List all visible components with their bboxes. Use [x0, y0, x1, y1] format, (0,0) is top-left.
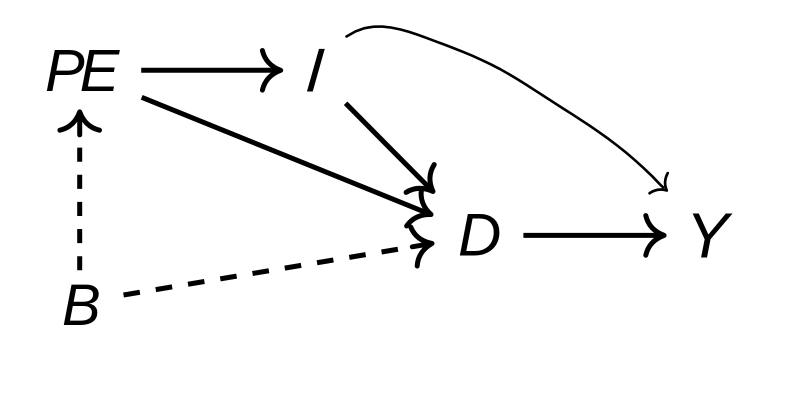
wire I to Y (curved)	[347, 27, 664, 188]
wire B to PE (dashed)	[77, 148, 82, 271]
arrowhead I to D	[406, 165, 434, 193]
svg-text:PE: PE	[45, 37, 121, 104]
arrowhead D to Y	[646, 216, 664, 256]
wire PE to D	[142, 97, 429, 213]
arrowhead B to D	[412, 244, 430, 247]
arrowhead PE to D	[407, 189, 431, 226]
svg-text:D: D	[458, 202, 501, 269]
wire B to D (dashed)	[124, 249, 399, 295]
arrowhead I to Y	[650, 173, 668, 193]
arrowhead B to PE	[77, 114, 82, 135]
wire PE to I	[141, 68, 278, 73]
arrowhead PE to I	[262, 51, 280, 91]
wire I to D	[346, 103, 431, 189]
svg-text:I: I	[303, 37, 326, 106]
svg-text:Y: Y	[686, 200, 733, 272]
svg-text:B: B	[62, 273, 101, 338]
wire D to Y	[523, 233, 661, 238]
